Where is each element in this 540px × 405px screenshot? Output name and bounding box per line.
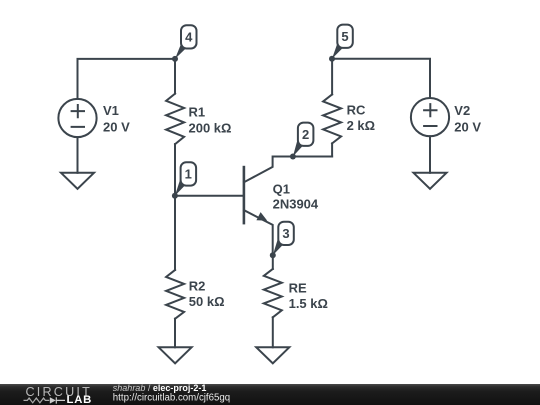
voltage source V1 — [58, 99, 96, 137]
node 4 label box — [181, 25, 197, 48]
svg-text:5: 5 — [341, 29, 348, 44]
wire V2 bottom to ground — [429, 136, 431, 173]
svg-text:2N3904: 2N3904 — [273, 196, 319, 211]
wire node 5 to V2 — [332, 59, 430, 98]
wire R2 bottom to ground — [174, 319, 176, 348]
ground under V1 — [61, 173, 94, 189]
svg-text:RC: RC — [347, 103, 366, 118]
Q1 emitter wire to node 3 — [244, 210, 273, 255]
Q1 emitter arrow — [256, 212, 267, 221]
node 5 label box — [337, 25, 353, 48]
ground under R2 — [159, 347, 192, 363]
svg-text:20 V: 20 V — [103, 120, 130, 135]
svg-text:2: 2 — [302, 127, 309, 142]
ground under RE — [256, 347, 289, 363]
node 2 label pointer — [293, 140, 303, 156]
transistor Q1 base bar — [243, 167, 246, 223]
svg-text:3: 3 — [282, 226, 289, 241]
node 1 junction dot — [172, 193, 178, 199]
wire node 3 to RE — [272, 255, 274, 269]
svg-text:Q1: Q1 — [273, 182, 290, 197]
Q1 collector wire to RC — [244, 157, 332, 183]
wire V1 bottom to ground — [77, 137, 79, 173]
svg-text:20 V: 20 V — [454, 120, 481, 135]
svg-text:shahrab / elec-proj-2-1: shahrab / elec-proj-2-1 — [113, 383, 207, 393]
node 5 label pointer — [332, 42, 343, 59]
node 4 label pointer — [175, 43, 187, 59]
logo diode — [50, 397, 56, 403]
resistor R1 — [166, 94, 184, 145]
wire V1 top to node 4 — [78, 59, 176, 99]
svg-text:http://circuitlab.com/cjf65gq: http://circuitlab.com/cjf65gq — [113, 393, 230, 404]
wire node 1 to R2 top — [174, 196, 176, 270]
wire node 1 to Q1 base — [175, 195, 244, 197]
node 3 junction dot — [270, 252, 276, 258]
wire node 4 to R1 top — [174, 59, 176, 94]
wire RC top to node 5 — [331, 59, 333, 95]
node 3 label box — [278, 222, 294, 245]
resistor RC bottom lead — [331, 143, 333, 156]
svg-text:LAB: LAB — [67, 394, 93, 405]
node 3 label pointer — [273, 239, 284, 255]
voltage source V2 — [411, 98, 449, 136]
svg-text:R2: R2 — [189, 279, 206, 294]
wire RE bottom to ground — [272, 317, 274, 347]
svg-text:4: 4 — [185, 30, 193, 45]
svg-text:V1: V1 — [103, 103, 119, 118]
svg-text:V2: V2 — [454, 103, 470, 118]
ground under V2 — [414, 173, 447, 189]
node 5 junction dot — [329, 56, 335, 62]
svg-text:2 kΩ: 2 kΩ — [347, 118, 376, 133]
svg-text:50 kΩ: 50 kΩ — [189, 294, 225, 309]
resistor RC — [323, 94, 341, 143]
svg-text:RE: RE — [289, 280, 307, 295]
node 4 junction dot — [172, 56, 178, 62]
node 1 label box — [181, 162, 197, 185]
svg-text:R1: R1 — [189, 105, 206, 120]
resistor RE — [264, 269, 282, 317]
logo resistor squiggle — [24, 398, 50, 403]
svg-text:1.5 kΩ: 1.5 kΩ — [289, 296, 328, 311]
svg-text:1: 1 — [185, 167, 192, 182]
node 2 label box — [298, 123, 314, 146]
wire R1 bottom to node 1 — [174, 144, 176, 196]
resistor R2 — [166, 270, 184, 319]
node 1 label pointer — [175, 180, 186, 196]
node 2 junction dot — [290, 154, 296, 160]
svg-text:200 kΩ: 200 kΩ — [189, 120, 232, 135]
